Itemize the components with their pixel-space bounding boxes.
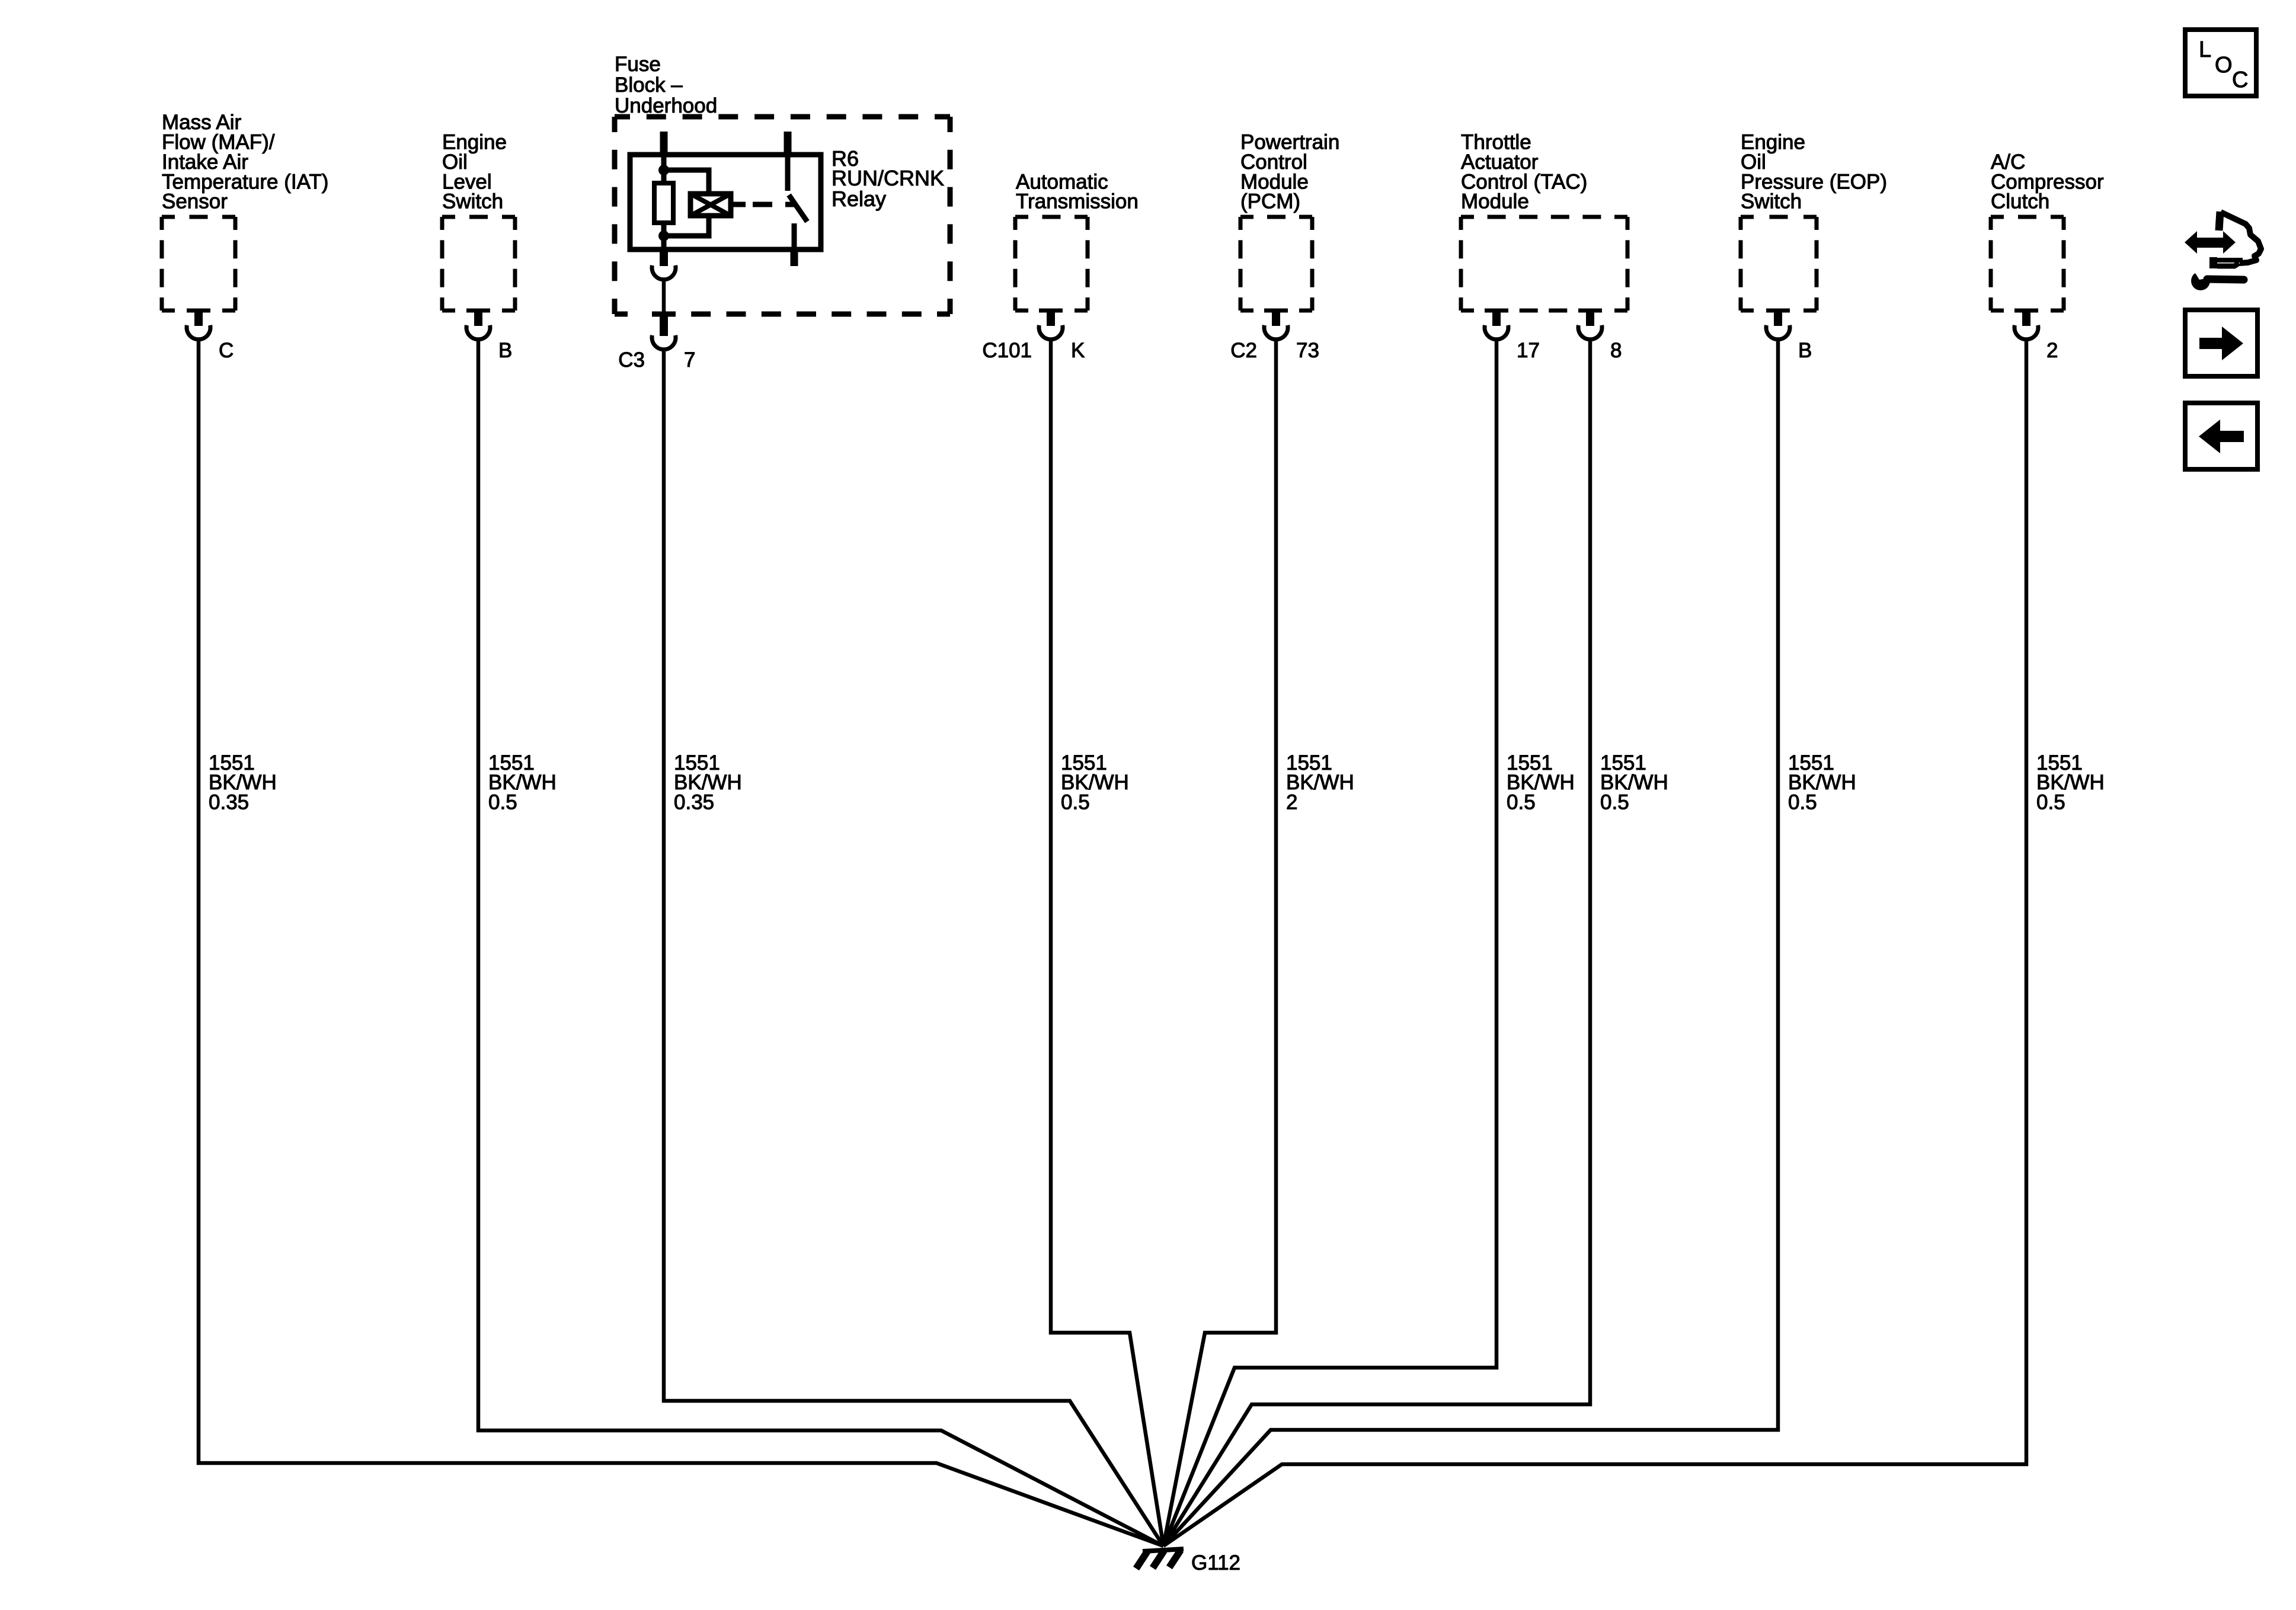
relay R6 coil-side internal wire <box>661 155 667 183</box>
wire junction to coil top <box>664 170 709 196</box>
svg-text:C: C <box>219 339 234 362</box>
svg-text:73: 73 <box>1296 339 1319 362</box>
wire label PCM ground wire <box>1286 751 1354 814</box>
Throttle Actuator Control (TAC) Module name label <box>1461 131 1587 213</box>
wire automatic transmission ground wire 1551 BK/WH <box>1051 340 1163 1546</box>
TAC module terminal 8 pin stub <box>1586 309 1594 326</box>
svg-text:B: B <box>1798 339 1812 362</box>
engine oil pressure switch dashed box <box>1741 217 1817 311</box>
ground G112 symbol <box>1136 1549 1184 1569</box>
fuse block connector C3 pin 7 socket arc <box>652 335 676 350</box>
svg-text:2: 2 <box>2046 339 2058 362</box>
resistor (relay R6 internal) <box>654 183 673 223</box>
engine oil level switch dashed box <box>442 217 515 311</box>
wire label TAC module ground wire pin 8 <box>1600 751 1668 814</box>
svg-text:Underhood: Underhood <box>615 94 717 117</box>
wire oil level switch ground wire 1551 BK/WH <box>478 340 1163 1546</box>
automatic transmission dashed box <box>1015 217 1088 311</box>
svg-text:(PCM): (PCM) <box>1240 190 1300 213</box>
svg-text:Clutch: Clutch <box>1991 190 2049 213</box>
A/C compressor clutch terminal 2 pin stub <box>2022 309 2030 326</box>
svg-text:8: 8 <box>1610 339 1622 362</box>
fuse block connector C3 pin 7 pin stub <box>660 313 668 336</box>
svg-text:0.5: 0.5 <box>1788 791 1817 814</box>
wire label MAF/IAT ground wire <box>209 751 277 814</box>
relay R6 coil <box>690 194 731 216</box>
MAF/IAT sensor terminal C pin stub <box>194 309 203 326</box>
EOP switch terminal B socket arc <box>1766 325 1790 340</box>
junction dot bottom (relay R6) <box>658 231 669 241</box>
relay R6 output terminal pin stub <box>660 248 668 266</box>
MAF/IAT sensor terminal C socket arc <box>187 325 210 340</box>
LOC icon box <box>2185 30 2256 96</box>
svg-text:C3: C3 <box>618 348 645 372</box>
wire EOP switch ground wire 1551 BK/WH <box>1163 340 1778 1546</box>
relay R6 output terminal socket arc <box>652 265 676 280</box>
PCM terminal 73 socket arc <box>1264 325 1288 340</box>
A/C Compressor Clutch name label <box>1991 151 2104 213</box>
EOP switch terminal B pin stub <box>1774 309 1782 326</box>
svg-text:0.5: 0.5 <box>1600 791 1629 814</box>
relay R6 coil tail <box>731 202 746 207</box>
wire label A/C compressor clutch ground wire <box>2036 751 2105 814</box>
wire TAC module ground wire pin 17 1551 BK/WH <box>1163 340 1496 1546</box>
oil level switch terminal B socket arc <box>466 325 490 340</box>
TAC module terminal 17 pin stub <box>1492 309 1501 326</box>
wire label automatic transmission ground wire <box>1061 751 1129 814</box>
TAC module terminal 17 socket arc <box>1485 325 1508 340</box>
wire PCM ground wire 1551 BK/WH <box>1163 340 1276 1546</box>
svg-text:C2: C2 <box>1230 339 1257 362</box>
svg-text:0.5: 0.5 <box>488 791 517 814</box>
wire resistor bottom to relay box bottom <box>661 223 667 249</box>
svg-text:O: O <box>2215 53 2233 78</box>
automatic transmission terminal K socket arc <box>1039 325 1063 340</box>
svg-text:Switch: Switch <box>1741 190 1802 213</box>
svg-text:2: 2 <box>1286 791 1297 814</box>
svg-text:K: K <box>1071 339 1085 362</box>
svg-text:Transmission: Transmission <box>1016 190 1139 213</box>
svg-text:C101: C101 <box>982 339 1032 362</box>
Fuse Block - Underhood name label <box>615 53 717 117</box>
junction dot top (relay R6) <box>658 165 669 175</box>
TAC module terminal 8 socket arc <box>1578 325 1602 340</box>
wire label EOP switch ground wire <box>1788 751 1856 814</box>
svg-text:B: B <box>498 339 512 362</box>
forward arrow icon <box>2185 310 2257 376</box>
throttle actuator control module dashed box <box>1461 217 1627 311</box>
powertrain control module dashed box <box>1240 217 1312 311</box>
svg-text:Block –: Block – <box>615 73 683 97</box>
relay R6 switch lower terminal <box>792 223 797 249</box>
back arrow icon <box>2185 403 2257 469</box>
svg-text:Sensor: Sensor <box>162 190 228 213</box>
Mass Air Flow (MAF)/Intake Air Temperature (IAT) Sensor name label <box>162 111 328 213</box>
wire label oil level switch ground wire <box>488 751 557 814</box>
svg-text:0.35: 0.35 <box>674 791 714 814</box>
svg-text:C: C <box>2232 68 2248 92</box>
A/C compressor clutch terminal 2 socket arc <box>2014 325 2038 340</box>
wire coil bottom to junction <box>664 213 709 236</box>
MAF/IAT sensor dashed box <box>162 217 235 311</box>
relay R6 label <box>832 146 944 211</box>
Engine Oil Level Switch name label <box>442 131 507 213</box>
relay R6 switch bottom stub <box>791 249 798 266</box>
svg-text:0.5: 0.5 <box>1061 791 1090 814</box>
wire TAC module ground wire pin 8 1551 BK/WH <box>1163 340 1590 1546</box>
svg-text:17: 17 <box>1517 339 1540 362</box>
fuse block underhood dashed box <box>615 117 950 314</box>
PCM terminal 73 pin stub <box>1272 309 1280 326</box>
Powertrain Control Module (PCM) name label <box>1240 131 1339 213</box>
relay R6 box <box>630 155 821 249</box>
svg-text:0.5: 0.5 <box>1507 791 1536 814</box>
svg-text:G112: G112 <box>1191 1551 1240 1574</box>
relay R6 switch blade <box>789 195 807 222</box>
svg-text:Relay: Relay <box>832 187 886 211</box>
svg-text:7: 7 <box>684 348 695 372</box>
oil level switch terminal B pin stub <box>474 309 482 326</box>
svg-text:0.35: 0.35 <box>209 791 249 814</box>
svg-text:0.5: 0.5 <box>2036 791 2065 814</box>
svg-text:Module: Module <box>1461 190 1529 213</box>
wire label fuse block ground wire <box>674 751 742 814</box>
wire MAF/IAT ground wire 1551 BK/WH <box>199 340 1163 1546</box>
svg-text:L: L <box>2199 37 2211 62</box>
wire A/C compressor clutch ground wire 1551 BK/WH <box>1163 340 2026 1546</box>
svg-text:Fuse: Fuse <box>615 53 661 76</box>
A/C compressor clutch dashed box <box>1991 217 2064 311</box>
Engine Oil Pressure (EOP) Switch name label <box>1741 131 1887 213</box>
Automatic Transmission name label <box>1016 170 1139 213</box>
relay R6 coil-side top terminal stub <box>660 132 668 155</box>
relay R6 linkage dashes <box>753 202 795 207</box>
relay R6 switch-side top terminal stub <box>784 132 792 155</box>
hotlink vehicle/wrench icon <box>2185 212 2261 290</box>
wire label TAC module ground wire pin 17 <box>1507 751 1575 814</box>
automatic transmission terminal K pin stub <box>1047 309 1055 326</box>
wire relay to fuse block edge <box>662 280 666 315</box>
svg-text:Switch: Switch <box>442 190 503 213</box>
relay R6 switch fixed contact <box>785 155 791 191</box>
wire fuse block ground wire 1551 BK/WH <box>664 350 1163 1546</box>
